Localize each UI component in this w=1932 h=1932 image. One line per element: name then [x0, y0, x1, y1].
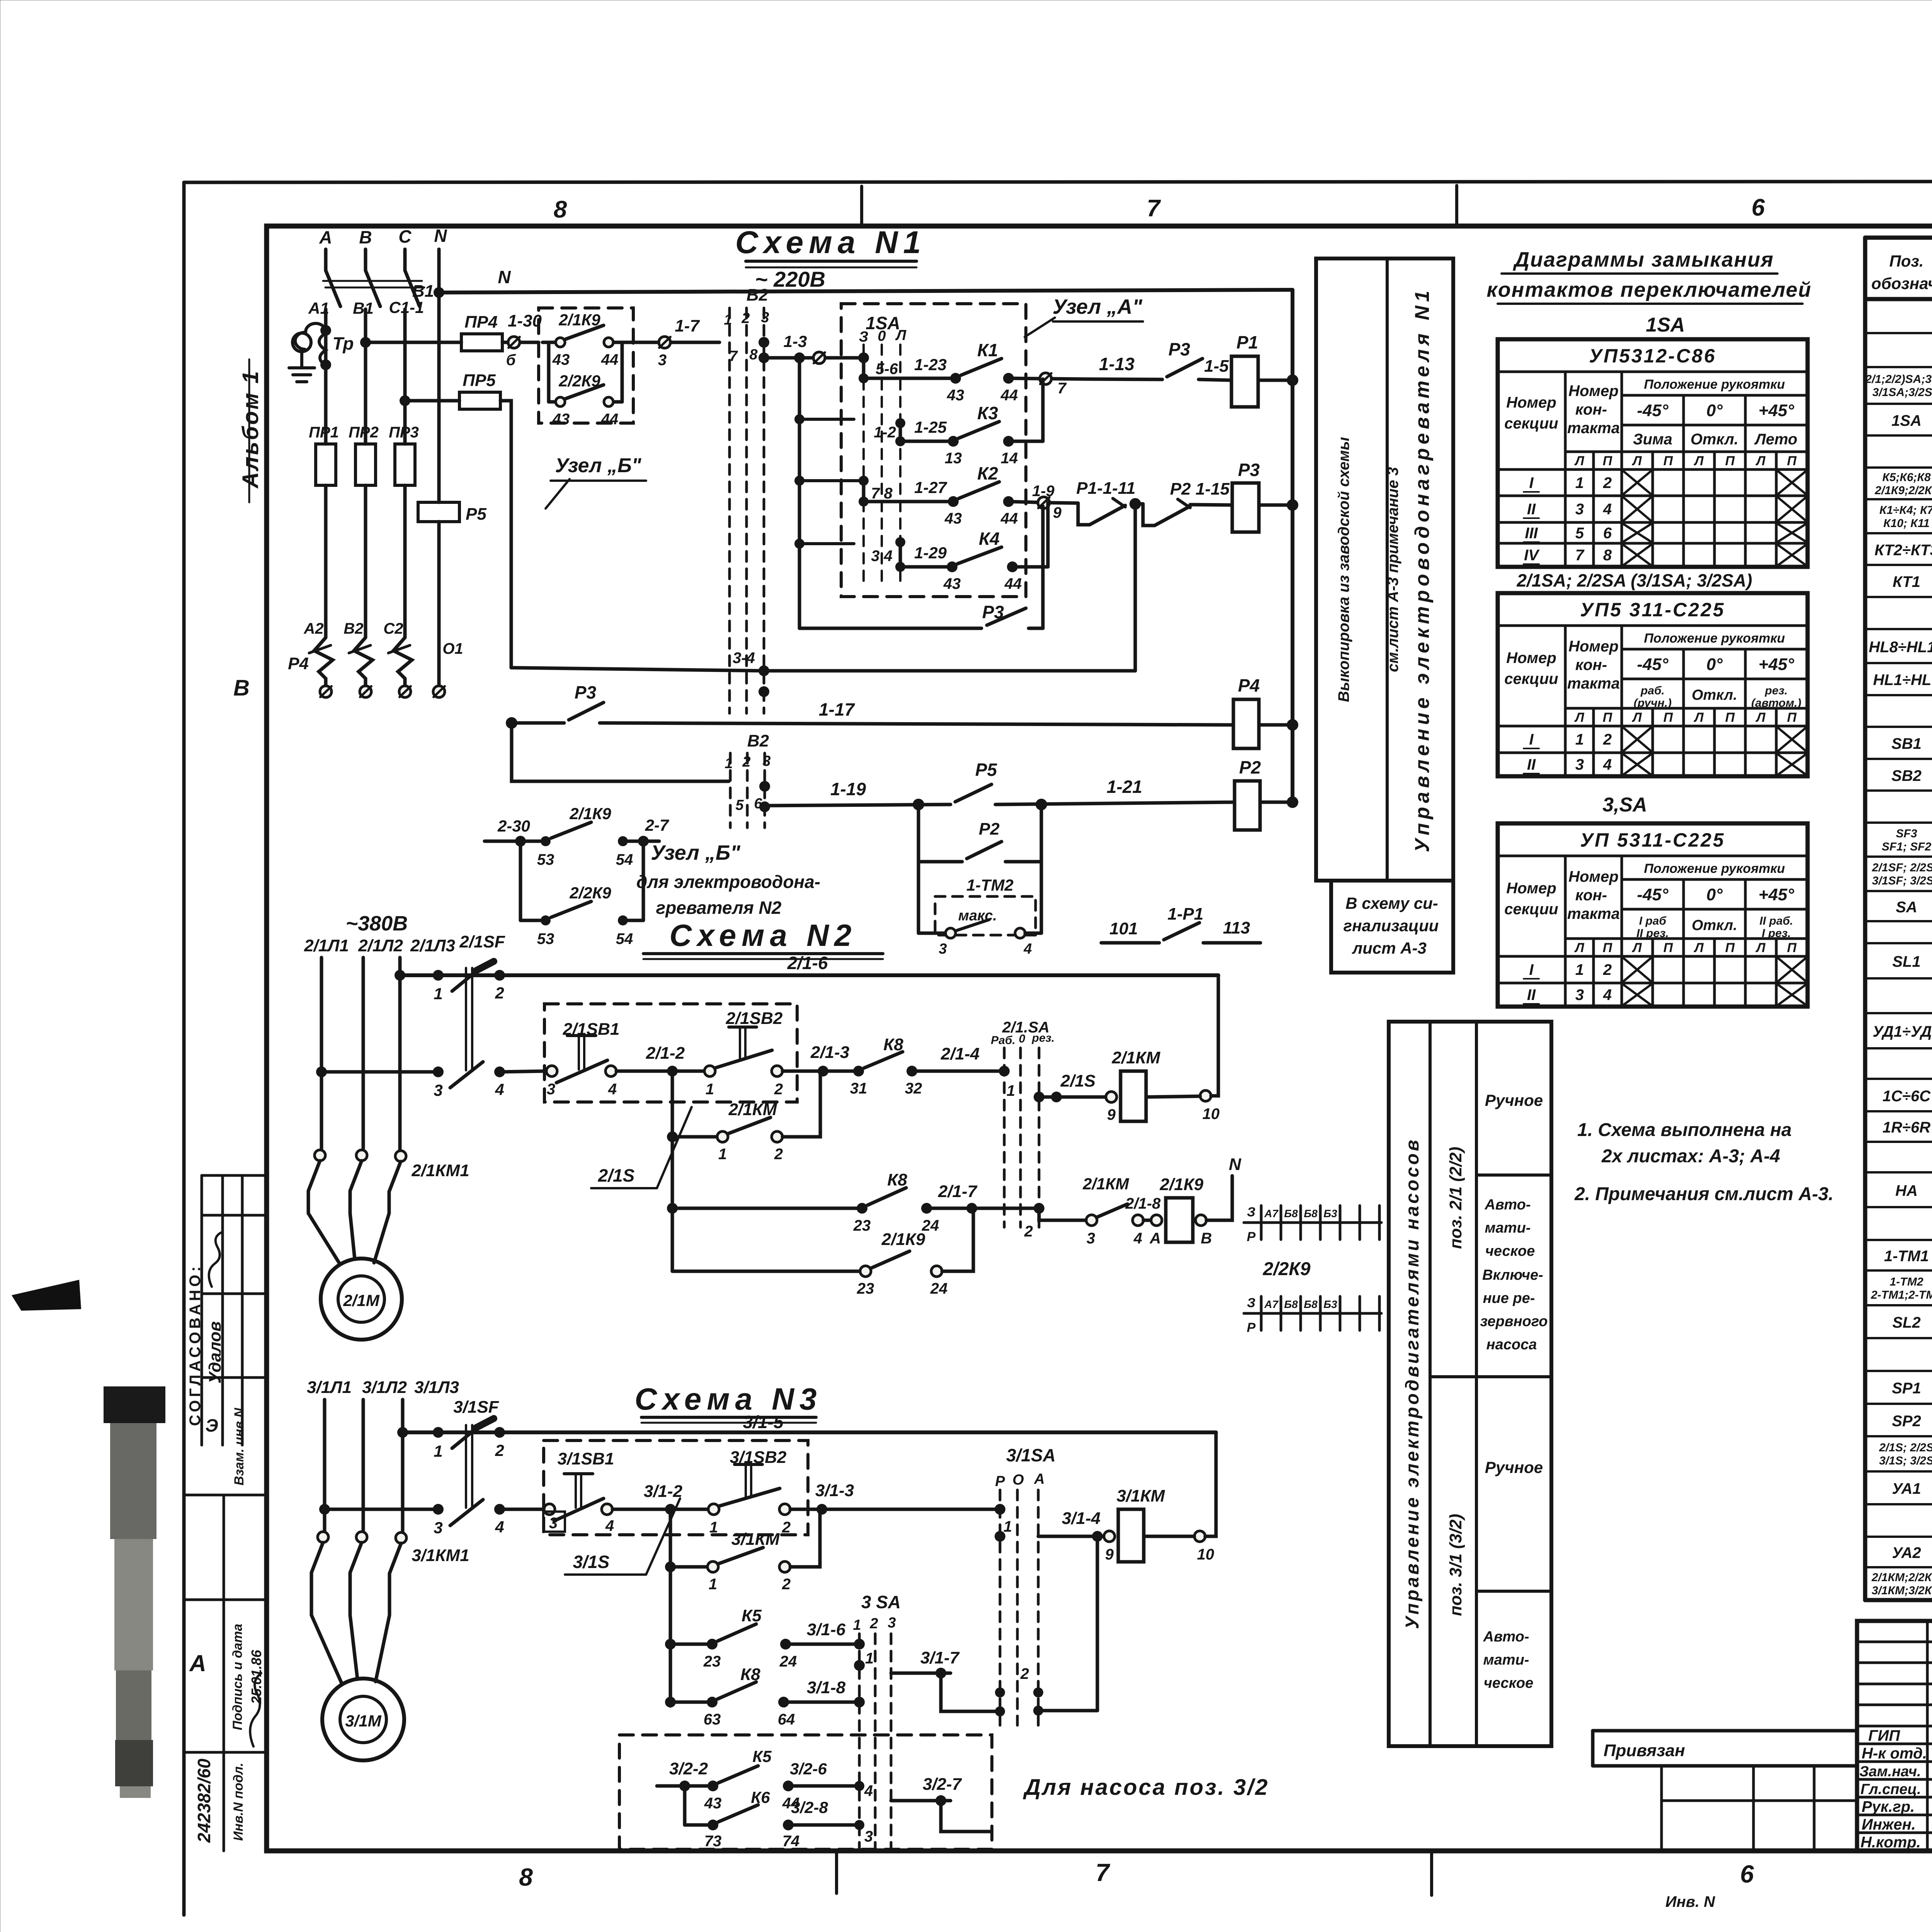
switch B1 pole C [405, 270, 420, 306]
svg-text:32: 32 [905, 1080, 922, 1097]
svg-text:3/1Л2: 3/1Л2 [362, 1378, 407, 1397]
wire K2 row to P1-1-11 [1050, 503, 1078, 503]
wire phase C lower [403, 309, 407, 444]
svg-text:43: 43 [947, 387, 964, 404]
svg-text:УА1: УА1 [1892, 1480, 1921, 1497]
contact P2 branch [918, 820, 1041, 862]
contact P3 bottom row [799, 506, 1043, 628]
signature rows [1859, 1727, 1932, 1851]
svg-text:1-23: 1-23 [914, 355, 947, 374]
junction L1 bus2 [319, 1504, 330, 1515]
svg-text:64: 64 [778, 1711, 795, 1728]
svg-text:1: 1 [1575, 731, 1584, 748]
svg-text:макс.: макс. [958, 908, 997, 924]
svg-text:3/1-7: 3/1-7 [920, 1648, 960, 1667]
contact P5 [955, 760, 998, 802]
svg-text:Узел „Б": Узел „Б" [651, 841, 741, 864]
svg-text:обознач.: обознач. [1871, 274, 1932, 293]
svg-text:УП 5311-С225: УП 5311-С225 [1580, 829, 1725, 851]
svg-text:SF3: SF3 [1896, 827, 1917, 840]
contactor 2/1KM1 main contacts [308, 1150, 469, 1192]
wire phase 3/1L1 [323, 1400, 327, 1531]
svg-text:В: В [1201, 1230, 1212, 1247]
svg-text:Л: Л [1693, 940, 1704, 955]
junction mid row [1129, 498, 1141, 510]
button 2/1SB1 [546, 1020, 619, 1098]
svg-text:Положение рукоятки: Положение рукоятки [1644, 861, 1785, 876]
svg-text:1: 1 [434, 985, 442, 1003]
svg-text:К5: К5 [752, 1747, 772, 1765]
svg-text:44: 44 [1000, 510, 1018, 527]
svg-text:зервного: зервного [1480, 1313, 1548, 1330]
svg-text:контактов переключателей: контактов переключателей [1486, 278, 1811, 301]
wire pole L to K3 [899, 423, 902, 441]
label box pump control [1389, 1022, 1551, 1746]
svg-text:П: П [1603, 940, 1613, 955]
terminal circle b [506, 337, 520, 369]
svg-text:3/2-2: 3/2-2 [669, 1759, 708, 1778]
svg-text:2: 2 [741, 310, 750, 327]
svg-text:3/2-6: 3/2-6 [790, 1760, 827, 1778]
wire N lower [437, 522, 441, 686]
junction C PR5 [400, 395, 410, 406]
svg-text:7: 7 [1058, 380, 1067, 397]
terminal 9 [1104, 1531, 1115, 1563]
wire uzelB to 1-7 [633, 341, 719, 344]
svg-text:1-7: 1-7 [675, 316, 700, 335]
neutral terminal [433, 686, 445, 697]
wire phase 2/1L3 [398, 957, 402, 1150]
svg-text:3: 3 [547, 1081, 555, 1098]
svg-text:В1: В1 [353, 299, 374, 317]
contact 2/2K9 [549, 342, 622, 428]
svg-text:SA: SA [1896, 899, 1917, 916]
terminal circle 3 [658, 337, 670, 369]
junction bus P3 [1287, 499, 1298, 511]
junction bus P4 [1287, 719, 1298, 731]
svg-text:Л: Л [1755, 710, 1765, 725]
svg-text:секции: секции [1504, 415, 1558, 432]
svg-text:П: П [1663, 454, 1673, 468]
svg-text:4: 4 [605, 1517, 614, 1534]
wire K9 to N [1206, 1155, 1242, 1220]
svg-text:IV: IV [1524, 547, 1540, 564]
svg-text:2/1SF: 2/1SF [459, 932, 505, 951]
svg-text:1: 1 [853, 1617, 861, 1633]
wire hold vertical [671, 1071, 674, 1271]
terminal grid block 2 [1244, 1296, 1381, 1335]
svg-text:43: 43 [944, 510, 962, 527]
svg-text:II раб.: II раб. [1760, 915, 1793, 927]
svg-text:Р3: Р3 [1168, 339, 1190, 359]
contact K8 row2 [672, 1170, 939, 1234]
svg-text:8: 8 [554, 196, 567, 223]
svg-text:УП5312-С86: УП5312-С86 [1589, 345, 1716, 367]
svg-text:Удалов: Удалов [206, 1321, 224, 1383]
inventory stamp cells [184, 1495, 267, 1851]
svg-text:Э: Э [205, 1415, 218, 1435]
svg-text:1-ТМ2: 1-ТМ2 [966, 876, 1014, 894]
svg-text:1-17: 1-17 [819, 699, 855, 719]
svg-text:СОГЛАСОВАНО:: СОГЛАСОВАНО: [187, 1264, 204, 1426]
wire control bus lower [321, 1070, 433, 1074]
svg-text:мати-: мати- [1483, 1652, 1529, 1668]
handwritten name Удалов [206, 1321, 224, 1383]
contact 2/1KM aux [672, 1071, 820, 1163]
svg-text:2/1КМ: 2/1КМ [728, 1100, 777, 1119]
junction feed 3 [794, 476, 804, 486]
svg-text:Номер: Номер [1568, 638, 1619, 655]
svg-text:9: 9 [1107, 1106, 1116, 1123]
svg-text:3/1-2: 3/1-2 [644, 1482, 683, 1501]
terminal 9 [1106, 1092, 1117, 1123]
contact K2 [944, 463, 1018, 527]
svg-text:9: 9 [1105, 1546, 1114, 1563]
svg-text:1-ТМ1: 1-ТМ1 [1884, 1248, 1929, 1265]
svg-text:2: 2 [742, 754, 750, 770]
svg-text:1С÷6С: 1С÷6С [1883, 1088, 1931, 1105]
wire pole3 to K2 [862, 481, 866, 502]
rotated label Подпись и дата [230, 1624, 245, 1730]
svg-text:1: 1 [709, 1576, 717, 1593]
junction B wire886 [360, 337, 371, 348]
svg-text:2. Примечания см.лист А-3.: 2. Примечания см.лист А-3. [1574, 1184, 1833, 1204]
handwritten signature squiggle [209, 1233, 221, 1287]
wire phase C to thermal [403, 485, 407, 638]
svg-text:Подпись и дата: Подпись и дата [230, 1624, 245, 1730]
svg-text:HL1÷HL7: HL1÷HL7 [1873, 672, 1932, 689]
terminal B [1196, 1215, 1212, 1247]
terminal circle 7 [1040, 373, 1067, 397]
svg-text:П: П [1787, 940, 1797, 955]
svg-text:Номер: Номер [1506, 880, 1556, 897]
junction pin3 [433, 1504, 444, 1515]
svg-text:2-ТМ1;2-ТМ2: 2-ТМ1;2-ТМ2 [1871, 1289, 1932, 1301]
wire stub row4 [799, 542, 854, 545]
junction KM aux [667, 1131, 678, 1142]
svg-text:Номер: Номер [1568, 868, 1619, 885]
svg-text:такта: такта [1567, 675, 1620, 692]
rotated label pos 3/1 [1446, 1514, 1465, 1616]
svg-text:поз. 2/1 (2/2): поз. 2/1 (2/2) [1446, 1147, 1465, 1249]
vertical inside pump box [683, 1786, 687, 1825]
svg-text:242382/60: 242382/60 [194, 1759, 214, 1843]
svg-text:К5;К6;К8: К5;К6;К8 [1882, 471, 1931, 484]
svg-text:3/1КМ;3/2КМ: 3/1КМ;3/2КМ [1872, 1584, 1932, 1597]
svg-text:1-25: 1-25 [914, 418, 947, 436]
top edge tick marks [860, 186, 863, 226]
svg-text:2/1К9: 2/1К9 [1160, 1175, 1204, 1194]
wire SB1 to SB2 [612, 1508, 708, 1511]
junction pin1 [433, 1427, 444, 1438]
wire K2 out [1009, 502, 1050, 503]
svg-text:б: б [506, 352, 516, 369]
svg-text:2/1КМ: 2/1КМ [1082, 1175, 1129, 1193]
svg-text:0°: 0° [1706, 401, 1723, 420]
svg-text:Н-к отд.: Н-к отд. [1862, 1745, 1927, 1762]
wire K3 out [1009, 440, 1043, 443]
junction B2 lower a [759, 781, 770, 792]
svg-text:1-21: 1-21 [1107, 777, 1142, 797]
wire coil to bus riser [1146, 975, 1218, 1097]
svg-text:24: 24 [930, 1280, 948, 1297]
junction 2/1-2 [667, 1066, 678, 1077]
junction K8 row2 [667, 1203, 678, 1214]
thermal overload P4 pole C [388, 638, 412, 697]
svg-text:2/1S: 2/1S [598, 1165, 635, 1185]
svg-text:Р5: Р5 [466, 505, 486, 524]
junction wire to K5 [665, 1639, 676, 1650]
svg-text:В2: В2 [344, 620, 363, 637]
rotated label heater control [1411, 287, 1434, 852]
svg-text:I раб: I раб [1639, 915, 1667, 927]
wire PR5 down [500, 401, 511, 668]
svg-text:Р3: Р3 [982, 602, 1004, 622]
svg-text:1-19: 1-19 [830, 779, 866, 799]
svg-text:3: 3 [1575, 501, 1584, 518]
svg-text:А7: А7 [1264, 1207, 1279, 1219]
svg-text:Б8: Б8 [1284, 1207, 1298, 1219]
svg-text:-45°: -45° [1637, 401, 1668, 420]
svg-text:Л: Л [1755, 454, 1765, 468]
contact P3 on 1-13 [1167, 339, 1202, 377]
svg-text:Р4: Р4 [288, 654, 309, 673]
wire SA-A to coil [1038, 1535, 1104, 1538]
wire control bus 2/1-6 upper [400, 973, 1218, 977]
wire phase A to thermal [324, 485, 328, 638]
svg-text:2: 2 [495, 1441, 504, 1459]
svg-text:4: 4 [1023, 941, 1032, 957]
title Схема N3 [635, 1382, 822, 1432]
contact 2/1K9 [543, 311, 633, 368]
svg-text:3/1-8: 3/1-8 [807, 1678, 846, 1697]
scan smudge left edge blob [12, 1280, 81, 1311]
rotated label Взам. инв. N [232, 1407, 247, 1485]
svg-text:лист А-3: лист А-3 [1352, 939, 1427, 957]
title Схема N2 [643, 918, 883, 973]
svg-text:2/1-8: 2/1-8 [1125, 1195, 1161, 1212]
contact K1 [947, 340, 1018, 404]
svg-text:3: 3 [1087, 1230, 1095, 1247]
svg-text:Зима: Зима [1633, 431, 1672, 448]
wire P3row drop [512, 723, 729, 781]
svg-text:В2: В2 [747, 286, 769, 304]
wire hold vertical [669, 1509, 672, 1706]
svg-text:3/1М: 3/1М [345, 1712, 381, 1730]
B2 switch dashed lines upper [730, 308, 764, 713]
thermometer contact maks box [918, 896, 1041, 957]
handwritten inventory number [194, 1759, 214, 1843]
svg-text:К8: К8 [740, 1665, 760, 1684]
svg-text:насоса: насоса [1486, 1337, 1537, 1353]
svg-text:+45°: +45° [1759, 655, 1794, 674]
contact K8 [670, 1665, 795, 1728]
junction 1SA pole3 top [858, 352, 869, 363]
svg-text:К1: К1 [977, 340, 998, 360]
junction feed 2 [794, 414, 804, 424]
svg-text:В1: В1 [412, 282, 434, 301]
svg-text:ческое: ческое [1485, 1243, 1535, 1259]
junction L3 bus1 [395, 970, 405, 981]
svg-text:1-30: 1-30 [508, 311, 542, 330]
svg-text:1-3: 1-3 [784, 332, 807, 350]
svg-text:кон-: кон- [1575, 656, 1607, 673]
svg-text:6: 6 [1752, 194, 1765, 221]
svg-text:3: 3 [1575, 986, 1584, 1003]
svg-text:Для насоса поз. 3/2: Для насоса поз. 3/2 [1022, 1775, 1269, 1800]
relay P3 [1232, 460, 1260, 532]
svg-text:2/2К9: 2/2К9 [569, 884, 611, 902]
svg-text:П: П [1603, 454, 1613, 468]
svg-text:мати-: мати- [1485, 1220, 1531, 1236]
uzel A callout [1025, 295, 1143, 337]
svg-text:1: 1 [724, 755, 733, 772]
contact 2/1KM reserve [1082, 1175, 1161, 1247]
svg-text:3/1-3: 3/1-3 [815, 1481, 854, 1500]
contact K8 row1 [850, 1035, 922, 1097]
fuse PR3 [389, 424, 419, 485]
svg-text:О1: О1 [442, 640, 463, 657]
diagram table УП 5311-С225 [1498, 823, 1808, 1007]
svg-text:3: 3 [434, 1081, 442, 1099]
svg-text:23: 23 [853, 1217, 871, 1234]
svg-text:3/1КМ: 3/1КМ [1117, 1486, 1165, 1505]
fuse PR2 [349, 424, 379, 485]
svg-text:1: 1 [724, 312, 732, 328]
svg-text:Диаграммы замыкания: Диаграммы замыкания [1513, 248, 1774, 271]
wire 3/1-8 [784, 1678, 865, 1708]
svg-text:ческое: ческое [1484, 1675, 1534, 1691]
rotated label Инв.N подл. [231, 1763, 246, 1841]
fuse PR1 [309, 424, 339, 485]
wire 2/1-7 [927, 1182, 1039, 1214]
terminal A [1150, 1215, 1162, 1247]
wire bus2 to box [500, 1508, 543, 1511]
svg-text:гревателя N2: гревателя N2 [656, 898, 782, 918]
svg-text:2-30: 2-30 [497, 817, 530, 835]
uzel B callout [546, 454, 646, 509]
terminal 10 [1200, 1090, 1219, 1122]
switch B1 pole B [366, 270, 380, 306]
wire 1SA feed vertical [798, 358, 801, 628]
bottom edge tick marks [835, 1851, 838, 1893]
svg-text:3-4: 3-4 [733, 650, 755, 667]
svg-text:УП5 311-С225: УП5 311-С225 [1580, 599, 1725, 621]
svg-text:2/1SA; 2/2SA (3/1SA; 3/2SA): 2/1SA; 2/2SA (3/1SA; 3/2SA) [1516, 570, 1752, 590]
svg-text:К6: К6 [751, 1788, 770, 1806]
svg-text:2/1-3: 2/1-3 [810, 1043, 849, 1062]
wire coil to bus riser [1144, 1432, 1216, 1536]
svg-text:Схема N1: Схема N1 [735, 225, 926, 260]
svg-text:~380В: ~380В [346, 912, 408, 935]
wire fuse to contact [502, 341, 539, 344]
svg-text:Инв. N: Инв. N [1665, 1893, 1715, 1910]
svg-text:+45°: +45° [1759, 885, 1794, 904]
wire phase B lower [364, 309, 367, 444]
wire 1-17 [600, 699, 1233, 725]
svg-text:74: 74 [782, 1833, 800, 1850]
junction 3/1-4 [1092, 1531, 1103, 1542]
svg-text:SL1: SL1 [1892, 953, 1920, 970]
svg-text:О: О [1012, 1472, 1024, 1488]
left margin album label [238, 369, 263, 489]
svg-text:В2: В2 [747, 731, 769, 750]
svg-text:2: 2 [1024, 1223, 1033, 1240]
svg-text:II: II [1527, 501, 1536, 518]
svg-text:Зам.нач.: Зам.нач. [1859, 1764, 1921, 1780]
svg-text:Схема N2: Схема N2 [670, 918, 857, 952]
svg-text:Взам. инв.N: Взам. инв.N [232, 1407, 247, 1485]
svg-text:УА2: УА2 [1892, 1544, 1921, 1561]
svg-text:Привязан: Привязан [1604, 1741, 1685, 1760]
svg-text:ПР5: ПР5 [463, 371, 496, 390]
svg-text:К3: К3 [977, 403, 998, 423]
relay P4 [1233, 675, 1260, 748]
contact K5 pump2 [657, 1747, 864, 1812]
svg-text:I рез.: I рез. [1762, 927, 1791, 940]
svg-text:Управление электроводонагреват: Управление электроводонагревателя N1 [1411, 287, 1434, 852]
pole L junction r2a [895, 418, 905, 428]
svg-text:1SA: 1SA [1891, 412, 1922, 429]
svg-text:23: 23 [857, 1280, 874, 1297]
svg-text:П: П [1603, 710, 1613, 725]
svg-text:8: 8 [1603, 547, 1612, 564]
svg-text:5: 5 [1575, 525, 1584, 542]
svg-text:2/1КМ;2/2КМ: 2/1КМ;2/2КМ [1871, 1571, 1932, 1584]
svg-text:III: III [1525, 525, 1538, 542]
svg-text:1-27: 1-27 [914, 478, 947, 497]
svg-text:Р1: Р1 [1236, 332, 1258, 352]
svg-text:Тр: Тр [332, 333, 354, 354]
svg-text:П: П [1663, 940, 1673, 955]
svg-text:А: А [319, 227, 332, 247]
svg-text:(автом.): (автом.) [1751, 697, 1801, 709]
svg-text:Альбом 1: Альбом 1 [238, 369, 263, 489]
button 3/1SB1 [543, 1449, 614, 1534]
diagram table УП5 311-С225 [1498, 593, 1808, 776]
svg-text:Л: Л [1631, 940, 1642, 955]
junction SA drop [1034, 1203, 1044, 1214]
switch 3/1SA dashed poles [1000, 1490, 1038, 1725]
svg-text:SP2: SP2 [1892, 1413, 1921, 1430]
svg-text:6: 6 [1603, 525, 1612, 542]
svg-text:1-13: 1-13 [1099, 354, 1134, 374]
svg-text:рез.: рез. [1032, 1032, 1055, 1044]
svg-text:II: II [1527, 986, 1536, 1003]
svg-text:см.лист А-3 примечание 3: см.лист А-3 примечание 3 [1384, 467, 1401, 672]
junction SA pole rez [1034, 1092, 1044, 1102]
svg-text:2: 2 [1020, 1665, 1029, 1682]
contactor 3/1KM1 main contacts [311, 1532, 469, 1573]
svg-text:2/1КМ1: 2/1КМ1 [411, 1161, 469, 1180]
contact 2/1K9 lower [537, 804, 669, 868]
svg-text:для электроводона-: для электроводона- [636, 872, 820, 892]
svg-text:9: 9 [1053, 504, 1062, 521]
svg-text:кон-: кон- [1575, 887, 1607, 904]
wire P3 to bus [1259, 503, 1293, 507]
svg-text:54: 54 [616, 851, 633, 868]
label 3/1S callout [565, 1498, 680, 1575]
rotated label pump motors control [1402, 1138, 1423, 1629]
svg-text:3/1-5: 3/1-5 [743, 1412, 784, 1432]
svg-text:Откл.: Откл. [1690, 431, 1738, 448]
svg-text:1: 1 [1007, 1082, 1015, 1099]
wire P1 to bus [1258, 379, 1293, 382]
svg-text:SB2: SB2 [1891, 767, 1922, 784]
svg-text:В: В [359, 227, 372, 247]
svg-text:Р2 1-15: Р2 1-15 [1170, 480, 1230, 498]
contact P3 row 1-17 [506, 682, 604, 729]
